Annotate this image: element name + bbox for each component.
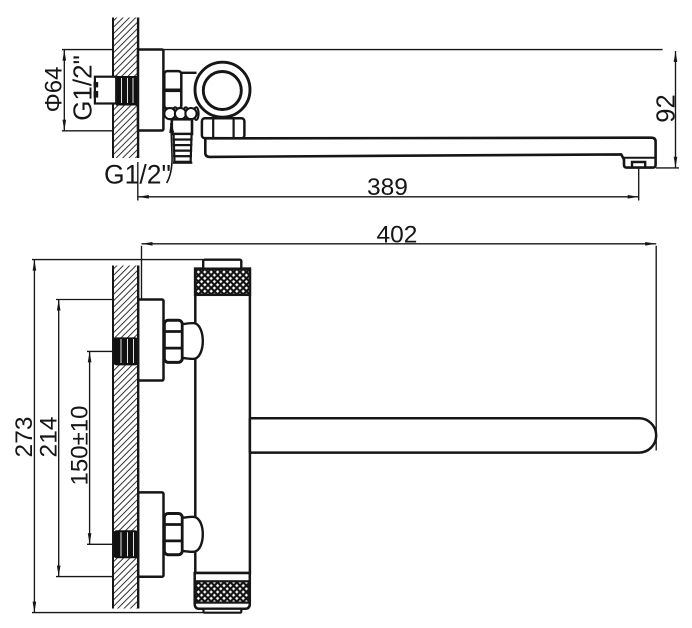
svg-text:Φ64: Φ64 (41, 67, 68, 113)
svg-text:92: 92 (653, 94, 681, 122)
svg-text:G1/2": G1/2" (104, 160, 171, 190)
svg-text:402: 402 (377, 222, 418, 249)
svg-text:150±10: 150±10 (67, 406, 94, 486)
svg-text:214: 214 (36, 417, 63, 458)
svg-text:389: 389 (367, 174, 408, 201)
svg-text:273: 273 (11, 417, 38, 458)
svg-text:G1/2": G1/2" (68, 55, 98, 121)
